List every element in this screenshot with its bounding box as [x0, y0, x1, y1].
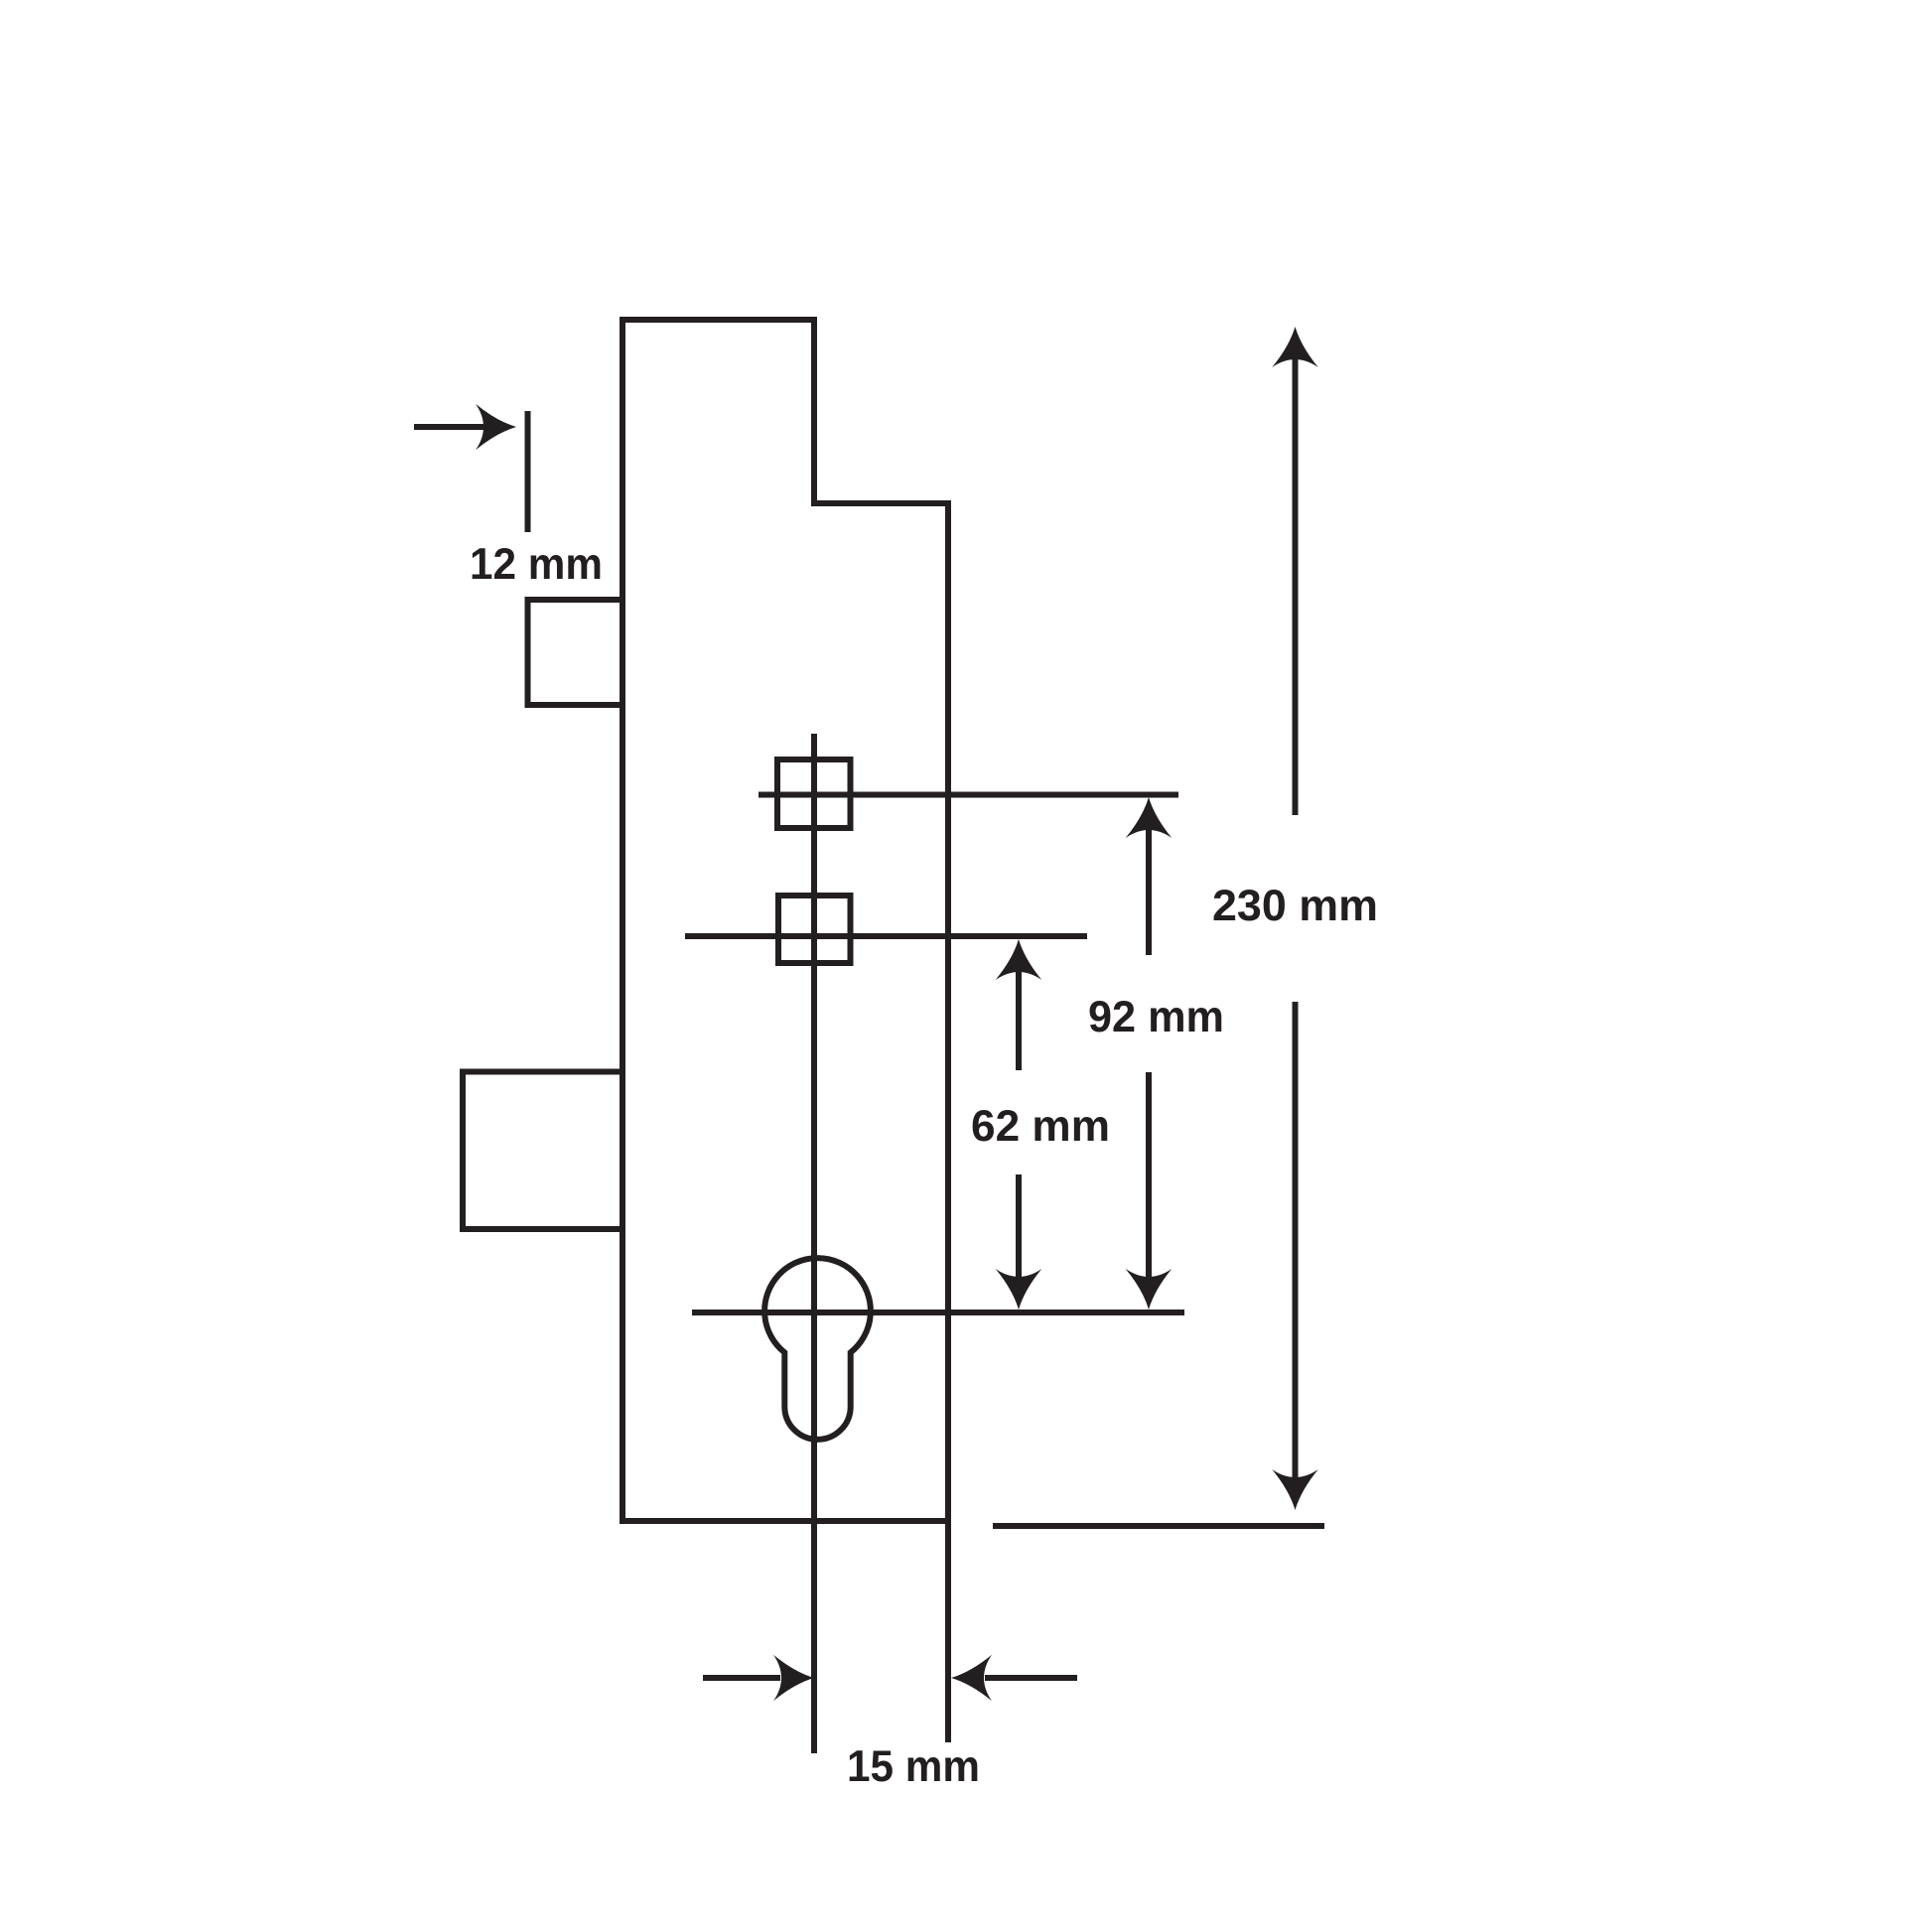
svg-text:230 mm: 230 mm — [1212, 882, 1378, 930]
svg-text:92 mm: 92 mm — [1088, 993, 1224, 1041]
svg-text:62 mm: 62 mm — [971, 1102, 1110, 1151]
svg-text:12 mm: 12 mm — [470, 540, 603, 589]
svg-text:15 mm: 15 mm — [847, 1742, 980, 1791]
